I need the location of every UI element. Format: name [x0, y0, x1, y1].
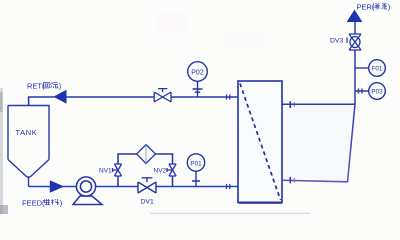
svg-text:P01: P01 [190, 160, 202, 167]
svg-text:NV1: NV1 [99, 168, 112, 175]
svg-text:DV1: DV1 [141, 199, 154, 206]
svg-text:): ) [60, 199, 63, 208]
svg-text:DV3: DV3 [330, 38, 343, 45]
svg-text:TANK: TANK [16, 128, 38, 137]
svg-text:RET(: RET( [27, 82, 45, 91]
svg-text:PER(: PER( [357, 3, 375, 12]
svg-text:F01: F01 [372, 66, 383, 73]
svg-text:P03: P03 [371, 89, 383, 96]
svg-text:P02: P02 [191, 70, 204, 77]
svg-text:): ) [59, 82, 62, 91]
svg-text:): ) [388, 3, 391, 12]
svg-text:NV2: NV2 [154, 168, 167, 175]
svg-text:FEED(: FEED( [22, 199, 45, 208]
